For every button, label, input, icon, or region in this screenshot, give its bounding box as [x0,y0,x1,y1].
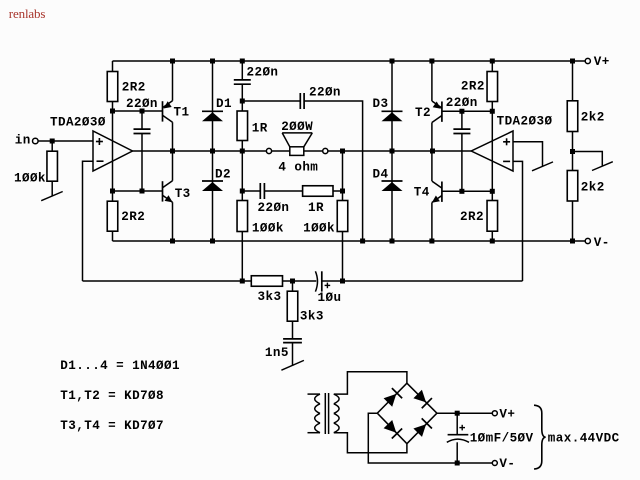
wire T1 emitter to V+ [172,61,174,101]
svg-text:T3,T4 = KD7Ø7: T3,T4 = KD7Ø7 [60,419,164,433]
capacitor 220n left [134,128,151,130]
svg-text:2R2: 2R2 [461,80,485,94]
svg-text:D4: D4 [373,167,389,181]
node output/T2T4 [430,149,435,154]
capacitor 220n right [453,128,470,130]
bridge diode top-right [407,383,437,413]
svg-text:2R2: 2R2 [121,210,145,224]
node right base row / R3 [490,109,495,114]
node T4 emitter at V- rail [429,239,434,244]
node output/D3D4 [390,149,395,154]
psu cap bottom lead [456,442,458,463]
wire T3 emitter to V- rail [172,202,174,241]
node output/D1D2 [210,149,215,154]
wire D1 branch [212,61,214,151]
svg-text:renlabs: renlabs [9,6,46,21]
wire R3 bottom lead [491,102,493,112]
wire 3k3h to node [283,280,293,282]
wire T1 base row [113,110,163,112]
node C3 at V+ rail [240,59,245,64]
svg-text:1R: 1R [252,121,268,135]
capacitor 220n across left [259,183,261,199]
psu V+ wire from bridge [437,412,492,414]
op-amp U2 minus sign [503,160,510,162]
op-amp U1 triangle [93,131,133,171]
svg-text:T2: T2 [415,106,431,120]
wire C7 to node [322,280,343,282]
ground 1n5 [281,360,304,370]
wire T2 emitter to V+ [431,61,433,101]
svg-text:D3: D3 [373,97,389,111]
wire T4 base row [442,190,492,192]
wire D3 branch [391,61,393,151]
svg-text:3k3: 3k3 [258,290,282,304]
wire R4 top lead [491,191,493,200]
wire 100k right bottom lead [342,232,344,282]
wire 2k2 node to ground [573,152,603,166]
diode D1 [202,110,223,112]
wire T4 collector to output row [431,151,433,181]
resistor 3k3 horizontal [251,276,282,287]
wire R3 top lead [491,61,493,72]
svg-text:2ØØW: 2ØØW [281,120,313,134]
wire node to C7 [293,280,317,282]
wire V+ rail left drop to R1 [112,61,114,72]
wire U2 plus input to ground [513,142,543,166]
resistor 100k left [237,201,248,232]
wire 3k3v to C8 [292,321,294,339]
wire R4 bottom lead [491,231,493,241]
svg-text:T1: T1 [174,105,190,119]
wire output to row191 left [241,151,243,191]
svg-text:D1: D1 [216,97,232,111]
node D3 at V+ rail [390,59,395,64]
wire T3 base row [113,190,163,192]
capacitor 10u plus sign [325,284,331,286]
capacitor 220n top [234,79,251,81]
svg-text:2k2: 2k2 [581,180,605,194]
wire C2 bottom lead [461,134,463,192]
wire zobel row right and drop to V- rail [304,101,363,241]
diode D4 [382,180,403,182]
wire 2k2 top lead [572,61,574,101]
wire T1 collector to output row [172,122,174,151]
transformer primary winding [315,394,320,433]
svg-text:22Øn: 22Øn [258,201,290,215]
wire feedback row right [343,280,523,282]
wire 2k2 middle [572,132,574,171]
wire D4 branch [391,151,393,241]
op-amp U2 triangle [471,131,513,171]
wire output to row191 right [342,151,344,191]
bridge diode bottom-right [407,413,437,444]
wire U2 inverting input to feedback row [513,161,523,281]
wire 100k bottom lead [51,181,53,196]
svg-text:1R: 1R [308,201,324,215]
wire speaker right lead [304,150,323,152]
psu V- wire from bridge [368,413,492,463]
psu primary top lead [308,393,321,395]
node row191 right junction [340,189,345,194]
resistor 1R vertical [237,111,248,141]
node row191/bias [110,189,115,194]
node T1 emitter at V+ rail [170,59,175,64]
node T3 emitter at V- rail [170,239,175,244]
wire speaker left lead [272,150,290,152]
wire U1 inverting input to feedback row [83,161,94,281]
wire T3 collector to output row [172,151,174,181]
wire R1 bottom to node [112,102,114,112]
op-amp U1 plus sign [96,141,103,143]
node row191 left junction [240,189,245,194]
svg-text:4 ohm: 4 ohm [278,161,318,175]
node left base row / R1 [110,109,115,114]
terminal V+ [585,58,590,63]
svg-text:V-: V- [499,457,515,471]
resistor 100k right [337,201,348,232]
resistor 100k input [47,151,58,181]
psu cap top lead [456,413,458,435]
resistor 3k3 vertical [287,291,298,321]
capacitor 1n5 [283,338,302,340]
svg-text:T1,T2 = KD7Ø8: T1,T2 = KD7Ø8 [60,389,164,403]
wire bias chain left (111 to 191) [112,111,114,191]
node zobel drop at V- rail [360,239,365,244]
node input / 100k [50,139,55,144]
brace max 44VDC [534,405,546,469]
svg-text:TDA2Ø3Ø: TDA2Ø3Ø [50,115,106,129]
svg-text:2R2: 2R2 [460,210,484,224]
wire C3 bottom lead [241,84,243,101]
svg-text:V-: V- [594,236,610,250]
node row191/C1 [140,189,145,194]
svg-text:V+: V+ [594,55,610,69]
transistor T2 [441,101,443,121]
ground 2k2 divider [592,162,613,171]
wire C2 top lead [461,111,463,129]
diode D2 [202,180,223,182]
resistor 2R2 top-left [107,72,118,102]
wire V+ rail [113,60,586,62]
node feedback / 100k left [240,279,245,284]
wire 3k3v top lead [292,281,294,291]
op-amp U2 plus sign [503,141,510,143]
terminal psu V+ [492,411,497,416]
node 2k2 at V- rail [570,239,575,244]
svg-text:D2: D2 [215,167,231,181]
node right row191 / R4 [490,189,495,194]
node output/T1T3 [170,149,175,154]
wire feedback row left [83,280,252,282]
capacitor 10mF/50V [448,434,469,436]
wire T2 base row [442,110,492,112]
node output/R5 [240,149,245,154]
wire bias chain right (111 to 191) [491,111,493,191]
capacitor 220n mid-top [299,93,301,109]
node R4 at V- rail [490,239,495,244]
svg-text:3k3: 3k3 [300,310,324,324]
psu secondary top lead [334,372,407,394]
wire 100k right top lead [342,191,344,201]
svg-text:1ØmF/5ØV: 1ØmF/5ØV [470,432,534,446]
svg-text:22Øn: 22Øn [126,97,158,111]
svg-text:T4: T4 [414,186,430,200]
speaker 200W [290,147,304,156]
capacitor 10mF plus sign [459,427,465,429]
transistor T4 [441,182,443,202]
terminal V- [585,238,590,243]
psu secondary bottom lead [334,433,407,453]
svg-text:1ØØk: 1ØØk [14,171,46,185]
wire T2 collector to output row [431,123,433,152]
svg-text:max.44VDC: max.44VDC [548,432,620,446]
node psu V- / cap [455,461,460,466]
node D1 at V+ rail [210,59,215,64]
wire 100k left bottom lead [241,232,243,282]
node feedback mid [290,279,295,284]
transformer secondary winding [334,394,339,433]
svg-text:22Øn: 22Øn [446,96,478,110]
svg-text:TDA2Ø3Ø: TDA2Ø3Ø [497,114,553,128]
wire output row left [133,150,267,152]
svg-text:1ØØk: 1ØØk [303,221,335,235]
node left base row / C1 [140,109,145,114]
wire C3 top lead [241,61,243,80]
ground U2 plus input [532,162,553,171]
wire C1 top lead [141,111,143,129]
wire output row right [328,150,471,152]
svg-text:T3: T3 [175,187,191,201]
node psu V+ / cap [455,411,460,416]
resistor 2k2 top [567,101,578,132]
resistor 2R2 bottom-right [487,201,498,232]
svg-text:1ØØk: 1ØØk [252,221,284,235]
node right base row / C2 [459,109,464,114]
terminal speaker left [266,148,271,153]
bridge diode bottom-left [377,413,407,444]
node D4 at V- rail [390,239,395,244]
node 2k2 at V+ rail [570,59,575,64]
resistor 2k2 bottom [567,171,578,202]
svg-text:D1...4 = 1N4ØØ1: D1...4 = 1N4ØØ1 [60,359,180,373]
transistor T3 [162,181,164,201]
wire R2 bottom lead [112,231,114,241]
wire row191 to C5 [242,190,260,192]
node 2k2 divider [570,149,575,154]
node D2 at V- rail [210,239,215,244]
bridge diode top-left [377,383,407,413]
wire in to op-amp [38,140,93,142]
diode D3 [382,110,403,112]
psu primary bottom lead [308,432,321,434]
svg-text:1Øu: 1Øu [318,291,342,305]
svg-text:2k2: 2k2 [581,110,605,124]
svg-text:22Øn: 22Øn [309,86,341,100]
op-amp U1 minus sign [97,160,104,162]
wire R2 top lead [112,191,114,201]
svg-text:22Øn: 22Øn [247,66,279,80]
node zobel top junction [240,99,245,104]
svg-text:2R2: 2R2 [122,81,146,95]
ground input [41,192,63,201]
resistor 2R2 top-right [487,72,498,102]
wire R5 bottom lead [241,141,243,152]
node output/feedback right [340,149,345,154]
node right row191 / C2 [459,189,464,194]
wire zobel row left [242,100,300,102]
svg-text:1n5: 1n5 [265,346,289,360]
resistor 1R across [303,186,333,197]
capacitor 10u [315,271,317,291]
node R3 at V+ rail [490,59,495,64]
transistor T1 [162,101,164,121]
wire 100k left top lead [241,191,243,201]
svg-text:in: in [15,134,31,148]
terminal in [33,138,39,144]
wire V- rail [113,240,586,242]
node feedback / 100k right [340,279,345,284]
wire D2 branch [212,151,214,241]
wire R5 top lead [241,101,243,111]
wire 2k2 bottom lead [572,201,574,241]
terminal speaker right [323,148,328,153]
wire C8 bottom lead [292,343,294,366]
resistor 2R2 bottom-left [107,201,118,231]
transformer core [324,393,326,434]
wire 100k top lead [51,141,53,151]
node T2 emitter at V+ rail [429,59,434,64]
wire T4 emitter to V- rail [431,203,433,242]
svg-text:V+: V+ [499,407,515,421]
wire C5 to R6 [264,190,302,192]
wire R6 to node [333,190,343,192]
wire C1 bottom lead [141,134,143,192]
terminal psu V- [492,461,497,466]
